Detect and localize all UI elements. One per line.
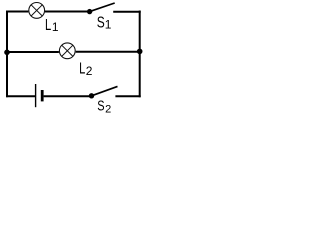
- wire top middle: [45, 11, 88, 13]
- svg-text:S: S: [97, 99, 104, 115]
- wire bottom right stub: [115, 95, 140, 97]
- node right junction: [137, 49, 143, 55]
- switch S2: [89, 86, 118, 98]
- svg-text:1: 1: [52, 20, 59, 34]
- svg-text:1: 1: [105, 18, 112, 32]
- lamp L2: [59, 43, 75, 59]
- svg-text:L: L: [79, 60, 85, 77]
- wire middle left: [6, 51, 59, 53]
- wire bottom middle: [44, 95, 90, 97]
- battery: [36, 84, 43, 107]
- wire right vertical: [139, 11, 141, 98]
- node left junction: [4, 50, 10, 56]
- lamp L1: [29, 2, 45, 18]
- wire top right stub: [113, 11, 141, 13]
- wire middle right: [76, 51, 140, 53]
- switch S1: [87, 3, 115, 14]
- svg-text:2: 2: [105, 104, 111, 115]
- wire left vertical: [6, 11, 8, 98]
- svg-text:S: S: [97, 15, 105, 32]
- svg-text:2: 2: [86, 64, 93, 78]
- wire top-left horizontal: [6, 11, 28, 13]
- wire bottom left: [6, 95, 35, 97]
- svg-text:L: L: [45, 17, 51, 34]
